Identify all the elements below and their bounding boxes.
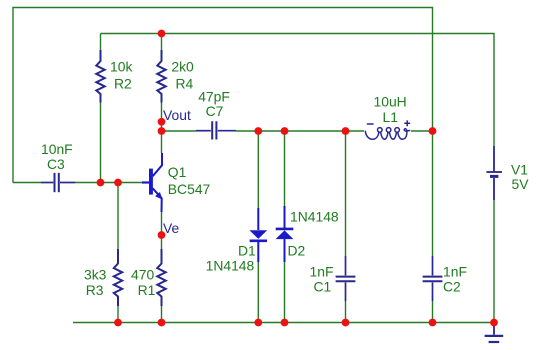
svg-text:R4: R4	[176, 76, 194, 92]
svg-text:C3: C3	[47, 156, 65, 172]
wire R3 bottom	[117, 306, 119, 323]
voltage source V1	[486, 146, 502, 200]
svg-text:5V: 5V	[512, 176, 530, 192]
node dot gnd D1	[254, 319, 262, 327]
wire D1 top	[257, 131, 259, 208]
node dot gnd R3	[114, 319, 122, 327]
wire collector	[161, 131, 163, 153]
node dot gnd C1	[342, 319, 350, 327]
svg-text:10uH: 10uH	[374, 94, 407, 110]
wire D2 top	[284, 131, 286, 206]
svg-text:D2: D2	[288, 243, 306, 259]
transistor Q1	[142, 153, 163, 212]
capacitor C1	[336, 256, 356, 301]
svg-text:10nF: 10nF	[41, 141, 73, 157]
node dot Vout junction	[158, 127, 166, 135]
svg-text:47pF: 47pF	[198, 89, 230, 105]
node dot Vout label	[158, 118, 166, 126]
diode D1	[249, 208, 267, 262]
svg-text:L1: L1	[383, 109, 399, 125]
svg-text:1N4148: 1N4148	[290, 209, 339, 225]
node dot D2 top	[281, 127, 289, 135]
resistor R2	[96, 50, 104, 103]
resistor R3	[114, 249, 122, 306]
capacitor C7	[196, 121, 236, 139]
wire C2 bottom	[432, 301, 434, 323]
svg-text:2k0: 2k0	[171, 59, 194, 75]
wire R4 bottom to Vout	[161, 103, 163, 132]
wire VCC rail	[101, 34, 495, 147]
wire Vout to C7	[162, 130, 197, 132]
wire feedback loop top/left	[13, 8, 433, 183]
svg-text:BC547: BC547	[168, 181, 211, 197]
node dot L1/C2	[429, 127, 437, 135]
node dot Ve	[158, 231, 166, 239]
svg-text:V1: V1	[511, 162, 528, 178]
capacitor C3	[41, 173, 75, 192]
node dot gnd V1	[490, 319, 498, 327]
wire C2 top	[432, 131, 434, 256]
node dot C1 top	[342, 127, 350, 135]
resistor R1	[157, 249, 165, 306]
L1 minus sign	[367, 123, 374, 125]
wire R1 bottom	[161, 306, 163, 323]
svg-text:1nF: 1nF	[310, 264, 334, 280]
L1 plus sign	[404, 120, 410, 126]
svg-text:Ve: Ve	[163, 220, 179, 236]
svg-text:Vout: Vout	[163, 107, 191, 123]
wire L1 right	[411, 130, 433, 132]
svg-text:470: 470	[131, 267, 154, 283]
node dot base/C3	[97, 179, 105, 187]
wire emitter to Ve to R1	[161, 212, 163, 249]
wire C1 top	[345, 131, 347, 256]
node dot gnd R1	[158, 319, 166, 327]
svg-text:C2: C2	[443, 279, 461, 295]
node dot gnd D2	[281, 319, 289, 327]
node dot C7/D1	[254, 127, 262, 135]
wire base	[75, 182, 142, 184]
capacitor C2	[423, 256, 443, 301]
wire R2 bottom	[100, 103, 102, 183]
node dot VCC/R4	[158, 30, 166, 38]
node dot gnd C2	[429, 319, 437, 327]
diode D2	[276, 206, 294, 262]
svg-text:10k: 10k	[110, 59, 132, 75]
svg-text:D1: D1	[238, 243, 256, 259]
svg-text:C7: C7	[206, 103, 224, 119]
svg-text:R2: R2	[114, 76, 132, 92]
svg-text:1nF: 1nF	[443, 264, 467, 280]
resistor R4	[157, 50, 165, 103]
wire D1 bottom	[257, 262, 259, 323]
svg-text:C1: C1	[314, 279, 332, 295]
svg-text:Q1: Q1	[168, 164, 187, 180]
svg-text:R3: R3	[86, 282, 104, 298]
inductor L1	[365, 128, 410, 140]
svg-text:1N4148: 1N4148	[206, 258, 255, 274]
wire R4 top	[161, 34, 163, 51]
wire V1 bottom	[493, 200, 495, 323]
svg-text:3k3: 3k3	[84, 267, 107, 283]
node dot base/R3	[114, 179, 122, 187]
svg-text:R1: R1	[138, 282, 156, 298]
wire R3 top	[117, 183, 119, 250]
wire ground rail	[73, 322, 494, 324]
ground	[485, 324, 504, 342]
wire D2 bottom	[284, 262, 286, 323]
wire C1 bottom	[345, 301, 347, 323]
wire R2 top	[100, 34, 102, 51]
wire C7 to tank rail	[236, 130, 364, 132]
wire C3 to base node	[13, 182, 41, 184]
